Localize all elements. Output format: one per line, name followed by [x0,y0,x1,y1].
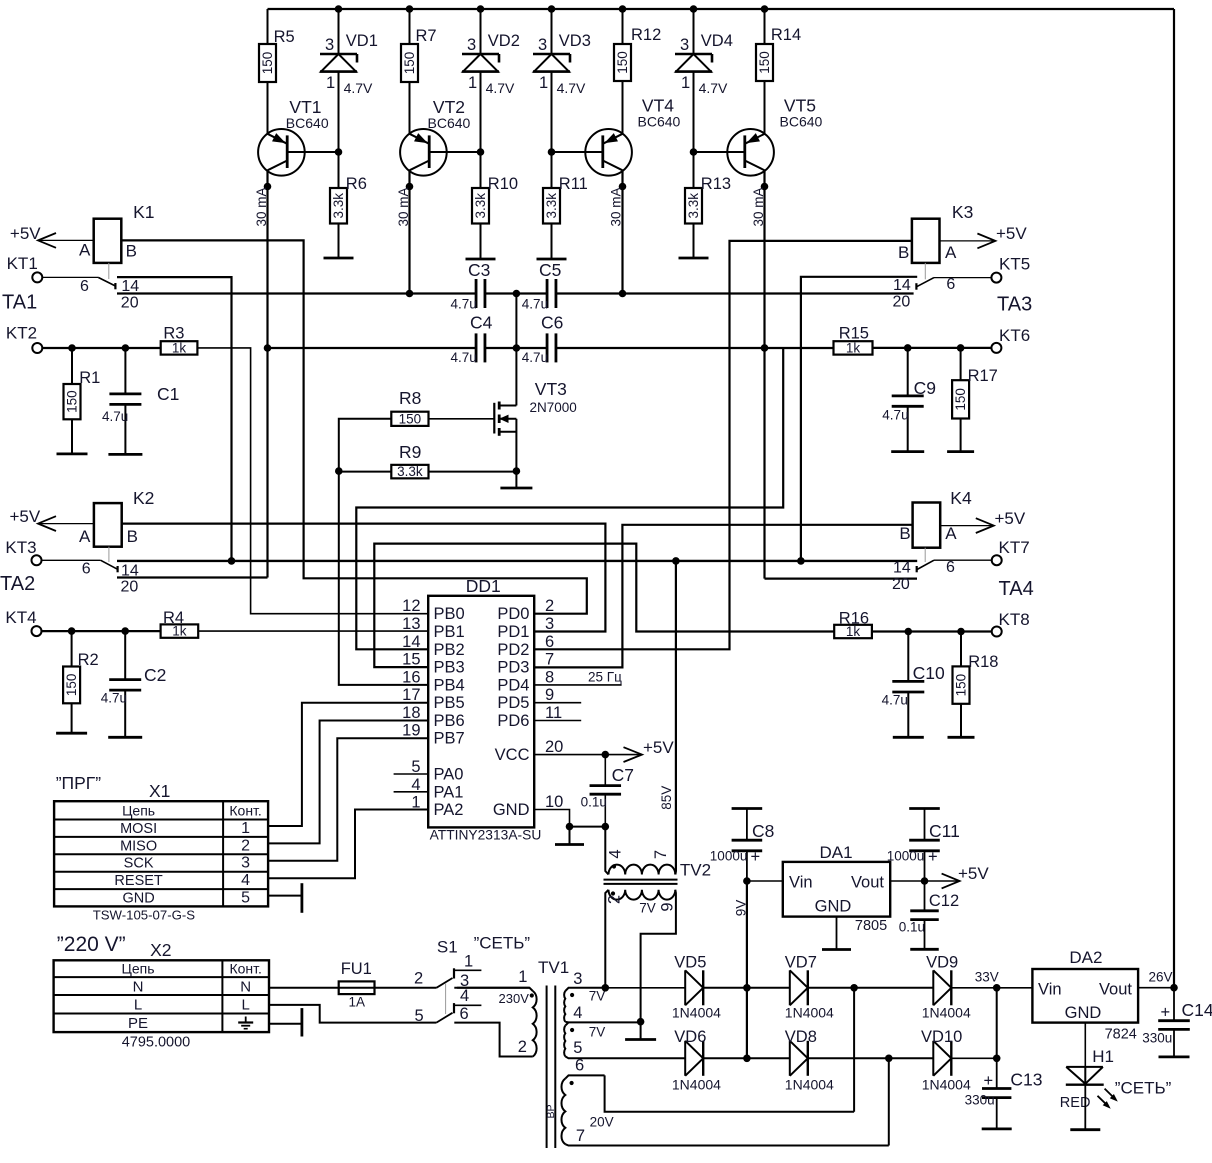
svg-text:330u: 330u [1142,1031,1172,1046]
svg-text:A: A [79,240,91,259]
svg-text:+: + [1161,1004,1171,1022]
svg-text:MOSI: MOSI [120,821,157,837]
wire 14-bus [117,557,917,565]
ground C1 [108,453,142,456]
svg-text:”ПРГ”: ”ПРГ” [56,773,102,793]
svg-text:TA3: TA3 [997,294,1032,316]
connector X2 table [54,933,269,1051]
svg-text:DD1: DD1 [466,576,501,596]
svg-text:N: N [240,978,251,995]
label TA4 [999,578,1034,600]
svg-text:VT3: VT3 [535,379,567,399]
wire +5V arrow K4 [940,509,1026,533]
svg-text:VD10: VD10 [921,1028,962,1046]
svg-text:4.7V: 4.7V [699,80,728,96]
svg-text:X2: X2 [150,940,171,960]
IC DD1 ATTINY2313A-SU [402,576,563,843]
wire 33V link [996,988,998,1059]
svg-text:C5: C5 [539,260,561,280]
svg-text:7V: 7V [589,1025,606,1040]
svg-text:R17: R17 [968,367,998,385]
svg-text:1: 1 [518,968,527,986]
svg-text:14: 14 [402,633,420,651]
svg-text:R11: R11 [559,175,588,193]
svg-text:PD2: PD2 [497,641,529,659]
terminal KT6 [991,326,1030,353]
svg-text:BP: BP [545,1104,557,1118]
svg-text:5: 5 [415,1007,424,1025]
svg-text:12: 12 [402,597,420,615]
pin PA1 stub [394,791,429,793]
svg-text:4.7u: 4.7u [522,350,548,365]
ground R18 [948,736,975,739]
svg-text:R13: R13 [701,175,731,193]
svg-text:33V: 33V [975,970,999,985]
svg-text:330u: 330u [965,1093,995,1108]
svg-text:VT4: VT4 [642,95,674,115]
svg-text:150: 150 [615,51,630,74]
resistor R9 [391,442,428,479]
svg-text:TV2: TV2 [680,861,711,880]
svg-text:150: 150 [399,411,422,426]
svg-text:C10: C10 [913,663,945,683]
svg-text:20: 20 [121,295,139,312]
ground C13 [982,1128,1012,1131]
connector X1 table [54,773,268,923]
svg-text:KT2: KT2 [6,323,37,342]
svg-text:C1: C1 [157,384,179,404]
capacitor C1 [102,348,179,454]
svg-text:150: 150 [757,51,772,74]
svg-text:GND: GND [815,898,852,916]
svg-text:KT5: KT5 [999,255,1030,274]
resistor R11 [543,152,588,259]
svg-text:VD1: VD1 [346,32,378,50]
capacitor C3 [451,260,491,312]
wire R16 out [872,628,992,636]
svg-text:TSW-105-07-G-S: TSW-105-07-G-S [93,908,196,923]
svg-text:1k: 1k [846,340,861,355]
transistor VT2 [400,97,480,176]
switch K1 contacts [42,277,139,311]
svg-text:1: 1 [681,74,690,92]
ground VT3 source [500,471,532,488]
svg-text:14: 14 [893,560,911,577]
svg-text:0.1u: 0.1u [581,795,607,810]
ground X1 GND [268,883,302,913]
wire VT4 collector 30mA [609,170,627,293]
ground R11 [537,258,567,261]
zener VD4 [675,9,733,152]
svg-text:C3: C3 [468,260,490,280]
diode VD5 [672,954,721,1021]
svg-text:C12: C12 [929,892,959,910]
svg-text:1: 1 [468,74,477,92]
svg-text:PA2: PA2 [434,801,464,819]
terminal KT4 [5,608,41,636]
relay K1 coil [79,202,155,263]
svg-text:PD6: PD6 [497,712,529,730]
svg-text:SCK: SCK [124,856,154,872]
resistor R1 [64,348,101,454]
svg-text:A: A [79,527,91,546]
svg-text:KT3: KT3 [5,538,36,557]
svg-text:VCC: VCC [495,746,530,764]
svg-text:KT1: KT1 [7,254,38,273]
svg-text:PB5: PB5 [434,694,465,712]
svg-text:0.1u: 0.1u [899,920,925,935]
svg-text:4.7u: 4.7u [882,693,908,708]
svg-text:B: B [126,242,137,261]
transistor VT1 [258,97,338,176]
svg-text:C4: C4 [470,313,493,333]
wire VT5 base node [690,148,698,156]
svg-text:Конт.: Конт. [229,961,261,977]
capacitor C12 [899,881,959,949]
svg-text:PE: PE [128,1015,148,1032]
relay K2 coil [79,488,154,547]
svg-text:4: 4 [607,849,625,858]
switch K2 contacts [42,560,139,595]
svg-text:C13: C13 [1010,1070,1042,1090]
wire R8 left to gate lane [339,419,392,471]
svg-text:R3: R3 [163,324,184,342]
ground R1 [57,452,88,455]
wire VCC +5V [534,738,674,762]
svg-text:B: B [899,524,910,543]
svg-text:PB3: PB3 [434,659,465,677]
resistor R10 [472,152,518,259]
svg-text:TV1: TV1 [538,958,569,977]
wire C8 to DA1 Vin [743,877,783,885]
svg-text:R16: R16 [839,609,869,627]
capacitor C13 [965,1058,1043,1129]
svg-text:Vout: Vout [1099,981,1132,999]
svg-text:Цепь: Цепь [122,803,155,819]
resistor R14 [756,9,801,134]
svg-text:VT1: VT1 [289,97,321,117]
svg-text:26V: 26V [1149,970,1173,985]
ground R10 [466,258,496,261]
wire +5V arrow K3 [940,224,1028,248]
wire VT5 collector 30mA to K4-20 [751,170,917,578]
svg-text:VD6: VD6 [674,1028,706,1046]
svg-text:14: 14 [893,277,911,294]
svg-text:2: 2 [545,597,554,615]
pin PD6 stub [534,720,581,722]
terminal KT8 [992,610,1030,637]
svg-text:PD4: PD4 [497,676,529,694]
svg-text:KT4: KT4 [5,608,36,627]
svg-text:R9: R9 [399,442,421,462]
svg-text:3.3k: 3.3k [473,193,488,219]
transistor VT4 [552,95,681,175]
IC DA1 7805 [783,843,890,934]
label TA1 [2,292,37,314]
ground C14 [1159,1056,1190,1059]
relay K1 link [108,263,110,279]
wire K1-20 / TA 20-line [117,292,914,294]
svg-text:7: 7 [576,1127,585,1145]
wire R8 to VT3 gate [429,418,495,420]
svg-text:1N4004: 1N4004 [785,1077,834,1093]
wire VT1 base node [335,148,343,156]
wire DD1 GND [534,810,609,831]
svg-text:14: 14 [121,278,139,295]
wire K3-B to DD1 PD2 [534,241,912,649]
svg-text:4.7u: 4.7u [451,350,477,365]
wire 9V lane [734,881,749,1058]
svg-text:R6: R6 [346,175,367,193]
wire VT2 base node [477,148,485,156]
resistor R18 [953,632,999,738]
label TA2 [0,573,35,595]
svg-text:L: L [134,997,142,1014]
transistor VT3 2N7000 [494,379,576,471]
capacitor C5 [522,260,562,312]
svg-text:1N4004: 1N4004 [785,1005,834,1021]
svg-text:3.3k: 3.3k [686,193,701,219]
wire C-junction to VT3 drain [515,294,517,406]
svg-text:11: 11 [545,704,562,722]
svg-text:VD4: VD4 [701,32,733,50]
svg-text:R1: R1 [79,369,100,387]
svg-text:GND: GND [122,891,154,907]
svg-text:3: 3 [680,36,689,54]
ground C2 [108,736,142,739]
svg-text:FU1: FU1 [341,960,372,978]
svg-text:7: 7 [545,651,554,669]
svg-text:TA2: TA2 [0,573,35,595]
ground C9 [891,450,924,453]
pin PA0 stub [394,773,429,775]
svg-text:6: 6 [460,1005,469,1023]
svg-text:9: 9 [545,686,554,704]
svg-text:C11: C11 [929,821,960,841]
svg-text:+5V: +5V [10,507,41,526]
svg-text:6: 6 [82,561,91,578]
capacitor C2 [101,631,167,737]
pin PD4 25Hz [534,670,622,685]
wire DA1 Vout +5V [890,864,989,888]
svg-text:3: 3 [538,36,547,54]
wire X1 SCK to PB7 [268,738,428,861]
svg-text:3.3k: 3.3k [397,464,423,479]
resistor R16 [834,609,872,639]
svg-text:30 mA: 30 mA [751,187,766,226]
svg-text:1: 1 [464,953,473,971]
svg-text:KT8: KT8 [999,610,1030,629]
svg-text:Конт.: Конт. [229,803,261,819]
wire DA2 Vout to rail [1138,984,1178,992]
svg-text:5: 5 [573,1039,582,1057]
svg-text:R10: R10 [488,175,518,193]
svg-text:”СЕТЬ”: ”СЕТЬ” [474,934,531,953]
svg-text:PD1: PD1 [497,623,529,641]
relay K4 link [924,548,926,562]
wire 20V lane to VD7/VD9 node [853,988,855,1112]
svg-text:VT5: VT5 [784,95,816,115]
svg-text:3: 3 [573,970,582,988]
svg-text:PA0: PA0 [434,766,464,784]
wire X2-L to S1 [269,1005,436,1023]
svg-text:1N4004: 1N4004 [672,1077,721,1093]
wire 20V return lane [888,1058,890,1145]
svg-text:+5V: +5V [995,509,1026,528]
svg-text:BC640: BC640 [638,113,681,129]
label TA3 [997,294,1032,316]
wire R9 left [335,467,391,475]
wire K2-20 to VT1 [117,576,268,578]
wire K3-14 [801,277,917,561]
svg-text:VT2: VT2 [433,97,465,117]
svg-text:ATTINY2313A-SU: ATTINY2313A-SU [430,828,542,843]
svg-text:R12: R12 [631,26,661,44]
svg-text:GND: GND [1065,1004,1102,1022]
svg-text:VD5: VD5 [674,954,706,972]
svg-text:R18: R18 [968,653,998,671]
svg-text:R4: R4 [163,609,184,627]
svg-text:Vin: Vin [1038,981,1062,999]
wire DD1 PB2 to TA3 line [356,348,783,649]
svg-text:7V: 7V [589,989,606,1004]
svg-text:6: 6 [946,276,955,293]
svg-text:K4: K4 [950,488,972,508]
svg-text:15: 15 [402,651,420,669]
node 20-line junctions [406,290,627,298]
wire fuse to S1 [375,987,437,989]
svg-text:1000u: 1000u [710,849,748,864]
resistor R5 [259,9,295,134]
svg-text:B: B [898,243,909,262]
svg-text:1: 1 [539,74,548,92]
svg-text:RESET: RESET [114,873,162,889]
wire K2-B to DD1 PD1 [122,524,606,632]
svg-text:150: 150 [953,388,968,411]
wire gate lane to PB4 [339,471,428,685]
svg-text:3.3k: 3.3k [331,193,346,219]
resistor R7 [401,9,437,134]
svg-text:150: 150 [402,52,417,75]
svg-text:25 Гц: 25 Гц [588,670,622,685]
node rail junctions [335,5,769,13]
ground R17 [947,450,974,453]
svg-text:PB1: PB1 [434,623,465,641]
svg-text:R14: R14 [771,26,801,44]
svg-text:C7: C7 [612,765,634,785]
ground R13 [679,257,709,260]
svg-text:MISO: MISO [120,838,157,854]
svg-text:VD7: VD7 [785,954,817,972]
svg-text:13: 13 [402,615,420,633]
svg-text:+: + [928,848,938,866]
svg-text:B: B [127,527,138,546]
terminal KT1 [7,254,43,282]
svg-text:1k: 1k [172,340,187,355]
svg-text:PA1: PA1 [434,783,464,801]
svg-text:TA4: TA4 [999,578,1034,600]
svg-text:K1: K1 [133,202,154,222]
resistor R12 [614,9,661,134]
wire 7V row [602,984,686,992]
capacitor C9 [882,348,936,452]
wire X2-N to fuse [269,987,339,989]
svg-text:4.7V: 4.7V [344,80,373,96]
wire K1-B to DD1 PD0 [121,240,587,613]
svg-text:8: 8 [545,668,554,686]
wire VD5 to 9V node [703,984,790,992]
ground DD1 [555,827,584,845]
capacitor C11 [887,809,960,882]
svg-text:30 mA: 30 mA [609,187,624,226]
svg-text:S1: S1 [437,938,458,957]
transistor VT5 [694,95,823,175]
svg-text:2: 2 [606,895,624,904]
ground R2 [56,732,87,735]
capacitor C10 [882,632,945,738]
svg-text:20V: 20V [590,1115,614,1130]
svg-text:PB4: PB4 [434,676,465,694]
svg-text:18: 18 [402,704,420,722]
IC DA2 7824 [1032,948,1172,1043]
ground C12 [910,948,939,951]
svg-text:PB2: PB2 [434,641,465,659]
svg-text:6: 6 [946,559,955,576]
svg-text:X1: X1 [149,781,170,801]
svg-text:4.7u: 4.7u [451,297,477,312]
svg-text:3: 3 [545,615,554,633]
wire K4-B to DD1 PD3 [534,525,912,668]
svg-text:4.7V: 4.7V [486,80,515,96]
svg-text:20: 20 [545,738,563,756]
resistor R2 [63,631,99,733]
wire VD7 to VD9 [808,984,933,992]
wire R4 to DD1 PB1 [198,630,428,632]
svg-text:150: 150 [64,674,79,697]
wire VD10 out [952,1055,1001,1063]
svg-text:150: 150 [260,52,275,75]
svg-text:PD5: PD5 [497,694,529,712]
svg-text:150: 150 [954,674,969,697]
wire VT2 collector 30mA [396,170,413,293]
svg-text:BC640: BC640 [428,115,471,131]
svg-text:9V: 9V [734,900,749,917]
wire K1-14 [117,277,232,561]
svg-text:R5: R5 [274,28,295,46]
svg-text:VD2: VD2 [488,32,520,50]
resistor R15 [834,324,873,355]
svg-text:+5V: +5V [958,864,989,883]
capacitor C14 [1142,988,1212,1057]
transformer TV2 [604,561,712,1022]
svg-text:GND: GND [493,801,530,819]
svg-text:7: 7 [652,850,670,859]
capacitor C6 [522,313,564,366]
wire +5V arrow K2 [10,507,94,531]
wire VD8 to VD10 [808,1055,933,1063]
diode VD7 [785,954,834,1021]
fuse FU1 [339,960,375,1010]
wire VT4 base node [548,148,556,156]
svg-text:1000u: 1000u [887,849,925,864]
svg-text:230V: 230V [499,991,530,1006]
wire DD1 PB3 to R16 [374,544,834,668]
svg-text:PB7: PB7 [434,730,465,748]
terminal KT7 [992,538,1030,565]
terminal KT2 [6,323,42,353]
svg-text:1N4004: 1N4004 [672,1005,721,1021]
ground DA1 [822,917,851,950]
